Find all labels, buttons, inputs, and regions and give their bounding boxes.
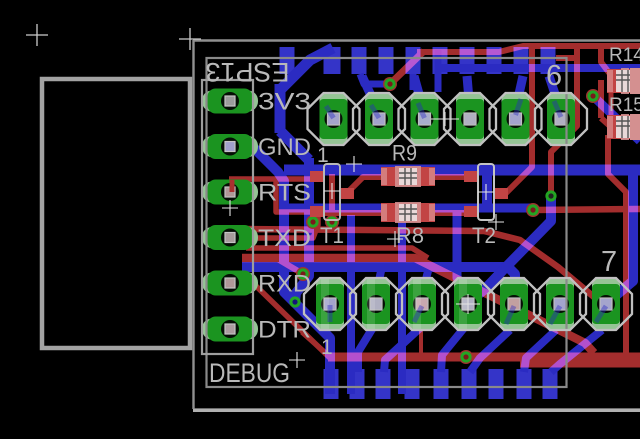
wire into bottom pad7 hole <box>596 306 606 322</box>
wire into top pad3 hole <box>418 103 425 118</box>
wire: via V6 up right to rail <box>551 44 577 194</box>
wire: T2 inner vertical link <box>482 168 492 210</box>
svg-text:T2: T2 <box>472 223 496 248</box>
wire: jog y=58 <box>556 55 578 61</box>
wire: bottom pad4 to stub <box>441 328 464 372</box>
pad cream stripes <box>321 279 329 329</box>
via V8 <box>586 89 600 103</box>
pad bottom header pin7 <box>592 278 620 330</box>
pad DEBUG pin6 <box>202 319 258 340</box>
wire: R9 to T2 upper pad <box>430 174 470 180</box>
wire: long riser between pads1-2 <box>347 215 355 394</box>
via V9 <box>459 350 473 364</box>
pad bottom header pin6 <box>546 278 574 330</box>
wire: branch to via V2 <box>276 258 303 274</box>
pad bottom header pin2 <box>362 278 390 330</box>
wire into bottom pad3 hole <box>414 306 422 322</box>
via V5 <box>325 215 339 229</box>
header top octagon outlines <box>308 93 360 145</box>
resistor R9 <box>381 167 435 186</box>
USB connector outline <box>42 79 190 348</box>
pad bottom header pin1 <box>316 278 344 330</box>
wire: top pad4 to stub <box>467 76 470 112</box>
via V6 <box>545 190 556 201</box>
wire: GND stub1 diagonal down <box>281 48 333 89</box>
pad top header pin5 <box>502 93 530 145</box>
wire: pad3 thin drop <box>419 300 423 357</box>
wire: via V1 to top rail diagonal <box>390 51 424 84</box>
via V2 <box>296 267 310 281</box>
wire: long vertical to bottom right <box>598 80 604 118</box>
pad bottom header pin4 <box>454 278 482 330</box>
wire: bottom rail second <box>520 361 640 368</box>
wire: ESP module top edge SMD pads <box>280 47 295 74</box>
transistor T1 outline <box>324 164 340 220</box>
origin cross top header <box>431 112 459 126</box>
connector DEBUG outline <box>202 80 253 354</box>
wire: RTS rail y=179 <box>229 176 322 182</box>
transistor T2 outline <box>478 164 494 220</box>
svg-text:R15: R15 <box>609 95 640 116</box>
svg-text:6: 6 <box>546 60 562 92</box>
via V3 <box>289 296 300 307</box>
transistor T1 pads <box>310 171 354 217</box>
origin cross DEBUG text <box>289 352 305 368</box>
resistor R15 <box>607 115 640 139</box>
pad DEBUG pin2 <box>202 136 258 157</box>
wire: bottom rail y=357 <box>328 353 640 362</box>
ESP13 module outline <box>207 58 567 387</box>
pad top header pin4 <box>456 93 484 145</box>
svg-text:RTS: RTS <box>258 180 311 207</box>
wire: R8 row left <box>318 210 384 216</box>
wire: horizontal bus y=208 to via <box>284 208 533 210</box>
wire: top pad5 to stub <box>515 76 523 112</box>
pad DEBUG pin4 <box>202 227 258 248</box>
svg-text:DTR: DTR <box>258 317 311 344</box>
board outline <box>193 40 640 410</box>
origin cross T1 <box>324 183 340 199</box>
origin cross near top 1 <box>346 156 362 172</box>
wire: ESP module bottom edge SMD pads <box>324 369 339 399</box>
svg-text:ESP13: ESP13 <box>206 57 290 87</box>
svg-text:1: 1 <box>317 144 329 167</box>
wire into top pad2 hole <box>371 105 379 118</box>
wire: RTS jog down to T1 lower pad <box>276 179 312 212</box>
pad DEBUG pin3 <box>202 182 258 203</box>
svg-text:R9: R9 <box>392 141 417 166</box>
pad top header pin1 <box>320 93 348 145</box>
wire: bottom pad2 to stub <box>358 326 374 372</box>
wire: right edge vertical to bottom pad7 <box>608 172 633 302</box>
pad top header pin6 <box>547 93 575 145</box>
wire: mid bus A y=229 to bottom pad7 <box>242 229 600 302</box>
svg-text:RXD: RXD <box>258 271 311 298</box>
wire: via V7 to right edge <box>533 209 640 210</box>
wire: top pad3 to stub <box>414 76 424 112</box>
wire into top pad1 hole <box>326 106 334 118</box>
wire: top rail y=46 <box>417 46 640 52</box>
wire: bottom pad3 to stub <box>384 328 420 372</box>
wire: horizontal bus y=267 <box>242 267 515 300</box>
via V7 <box>526 203 540 217</box>
wire: TXD trace <box>234 213 318 238</box>
wire: band drop to pad2 <box>377 271 381 291</box>
wire: long riser between pads2-3 <box>398 215 406 394</box>
wire: mid bus C y=258 diagonal to rail <box>242 258 594 353</box>
cross origin marker board corner <box>179 28 201 50</box>
origin cross T2 <box>478 184 494 200</box>
wire: R15 pad diag <box>601 118 611 127</box>
wire: via V8 to right edge diagonal <box>593 96 640 141</box>
pad bottom header pin3 <box>408 278 436 330</box>
wire: top pad2 to stub <box>362 76 379 113</box>
cross origin marker top-left <box>26 24 48 46</box>
wire: T2 collector up to rail <box>500 44 532 193</box>
header bottom octagon outlines <box>304 278 356 330</box>
pad bottom header pin5 <box>500 278 528 330</box>
origin cross R8 <box>387 231 403 247</box>
resistor R14 <box>607 69 640 93</box>
wire: R14 feed vertical <box>601 44 610 74</box>
via V1 <box>383 77 397 91</box>
wire into bottom pad1 hole <box>328 305 333 322</box>
svg-text:3V3: 3V3 <box>258 89 311 116</box>
wire: GND vertical x=280 <box>275 84 286 133</box>
origin cross bottom header <box>456 294 480 314</box>
svg-text:R14: R14 <box>609 45 640 66</box>
wire: GND pad to bottom header pin1 <box>234 147 330 394</box>
wire: stub to via V1 <box>360 74 388 84</box>
pad top header pin3 <box>411 93 439 145</box>
wire: vertical x=309 down to via <box>295 158 309 301</box>
wire: DTR trace diagonal <box>234 328 245 334</box>
wire: bottom pad7 to stub <box>551 330 602 372</box>
wire: top pad6 to stub <box>549 76 561 112</box>
wire into top pad6 hole <box>554 101 561 117</box>
transistor T2 pads <box>464 171 508 217</box>
wire: T1 collector to R9 <box>347 177 384 193</box>
wire: horizontal bus y=68 right <box>438 64 640 72</box>
resistor R8 <box>381 203 435 222</box>
wire: riser to bottom pad4 <box>457 212 468 302</box>
wire: R14-R15 link <box>609 86 614 118</box>
pad DEBUG pin1 <box>202 91 258 112</box>
wire: mid bus B y=248 <box>246 248 428 258</box>
origin cross DEBUG <box>222 200 238 216</box>
wire into bottom pad5 hole <box>506 306 514 324</box>
wire: T1 internal vertical <box>329 174 335 211</box>
svg-text:DEBUG: DEBUG <box>209 358 290 388</box>
svg-text:7: 7 <box>601 246 617 278</box>
wire into bottom pad6 hole <box>550 306 560 324</box>
wire: bottom pad6 to stub <box>524 330 556 372</box>
svg-text:R8: R8 <box>396 223 424 248</box>
via V4 <box>306 215 320 229</box>
wire: narrow stub tails <box>410 74 417 90</box>
svg-text:GND: GND <box>258 134 311 161</box>
wire RTS red drop <box>230 180 235 192</box>
wire: GND diagonal to x=309 vertical <box>280 131 309 160</box>
wire: RXD trace diagonal <box>234 286 330 358</box>
svg-text:1: 1 <box>321 336 333 359</box>
wire: bottom pad5 to stub <box>470 330 510 372</box>
pad DEBUG pin5 <box>202 273 258 294</box>
wire into top pad5 hole <box>516 99 522 115</box>
pad top header pin2 <box>365 93 393 145</box>
origin cross T2 label <box>488 214 504 230</box>
svg-text:T1: T1 <box>320 223 344 248</box>
wire: band drop to pad3 <box>423 271 428 292</box>
wire: via V6 down to bottom pad4 <box>470 198 551 301</box>
wire: R8 to T2 lower pad <box>430 210 470 216</box>
wire: wide horizontal bus y=170 <box>284 165 640 176</box>
svg-text:TXD: TXD <box>258 225 311 252</box>
